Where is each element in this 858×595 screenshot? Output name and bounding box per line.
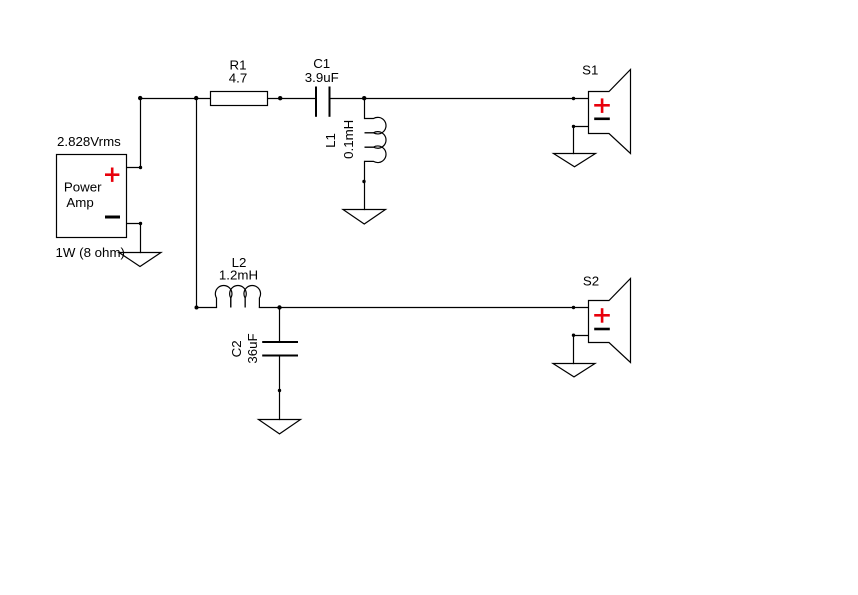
pin dot S2 plus bbox=[572, 306, 575, 309]
svg-text:C2: C2 bbox=[229, 340, 244, 357]
wire L2 to S2 bbox=[259, 307, 588, 309]
pin dot L1 bottom bbox=[362, 180, 365, 183]
wire R1 to C1 bbox=[267, 98, 316, 100]
svg-text:4.7: 4.7 bbox=[229, 70, 248, 85]
wire C1 to S1 bbox=[330, 98, 589, 100]
junction node branch top bbox=[194, 96, 198, 100]
ground S1 bbox=[554, 154, 596, 167]
svg-text:C1: C1 bbox=[313, 56, 330, 71]
pin dot C2 bottom bbox=[278, 389, 281, 392]
amp minus terminal mark bbox=[105, 216, 120, 219]
inductor L2 bbox=[215, 285, 260, 307]
svg-text:S1: S1 bbox=[582, 63, 598, 78]
junction node amp+ top bbox=[138, 96, 142, 100]
svg-text:S2: S2 bbox=[583, 274, 599, 289]
wire S2 minus to ground bbox=[574, 336, 589, 364]
svg-text:0.1mH: 0.1mH bbox=[341, 120, 356, 159]
junction node R1-C1 bbox=[278, 96, 282, 100]
wire main vertical to low-pass branch bbox=[196, 99, 198, 308]
source power amp box bbox=[57, 155, 127, 238]
ground L1 bbox=[343, 210, 386, 225]
capacitor C2 bbox=[262, 342, 298, 356]
wire amp- to ground bbox=[127, 224, 141, 253]
inductor L1 bbox=[365, 117, 387, 162]
svg-text:1W (8 ohm): 1W (8 ohm) bbox=[56, 245, 125, 260]
pin dot amp plus bbox=[139, 166, 142, 169]
junction node C2 tap bbox=[277, 305, 281, 309]
pin dot S1 minus bbox=[572, 125, 575, 128]
junction node branch corner bbox=[195, 306, 199, 310]
wire C2 top bbox=[279, 308, 281, 342]
svg-text:1.2mH: 1.2mH bbox=[219, 267, 258, 282]
svg-text:Amp: Amp bbox=[66, 195, 93, 210]
wire amp+ vertical riser bbox=[127, 99, 141, 168]
wire branch to L2 bbox=[197, 307, 217, 309]
resistor R1 bbox=[211, 92, 268, 106]
svg-text:L1: L1 bbox=[323, 133, 338, 148]
ground S2 bbox=[553, 364, 595, 377]
svg-text:Power: Power bbox=[64, 180, 102, 195]
wire L1 bottom to ground bbox=[364, 161, 366, 209]
wire L1 top bbox=[364, 99, 366, 119]
speaker S2 bbox=[589, 279, 631, 363]
pin dot S1 plus bbox=[572, 97, 575, 100]
S1 minus mark bbox=[594, 118, 610, 121]
speaker S1 bbox=[589, 70, 631, 154]
amp plus terminal mark bbox=[105, 168, 119, 182]
svg-text:3.9uF: 3.9uF bbox=[305, 70, 339, 85]
wire top net: amp+ to R1 bbox=[141, 98, 211, 100]
S2 minus mark bbox=[594, 328, 610, 331]
svg-text:2.828Vrms: 2.828Vrms bbox=[57, 134, 121, 149]
wire S1 minus to ground bbox=[574, 127, 589, 154]
svg-text:36uF: 36uF bbox=[245, 333, 260, 363]
pin dot amp minus bbox=[139, 222, 142, 225]
capacitor C1 bbox=[316, 87, 330, 117]
ground C2 bbox=[259, 420, 301, 434]
ground amp bbox=[119, 253, 161, 267]
pin dot S2 minus bbox=[572, 334, 575, 337]
junction node L1 tap bbox=[362, 96, 366, 100]
wire C2 bottom to ground bbox=[279, 356, 281, 419]
S1 plus mark bbox=[594, 98, 610, 113]
S2 plus mark bbox=[594, 308, 610, 323]
